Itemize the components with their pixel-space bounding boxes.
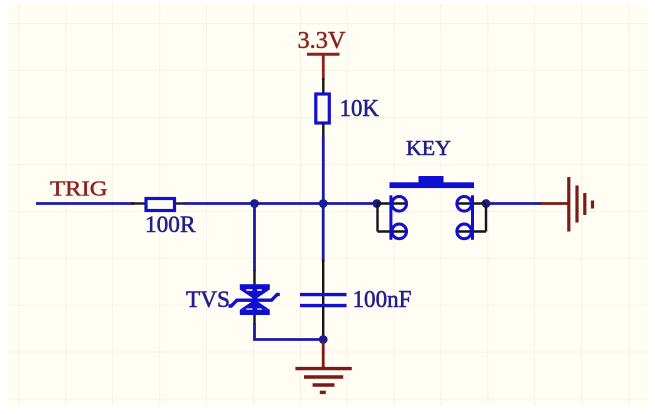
pin wire: R1 top pin bbox=[322, 78, 324, 95]
power wire 3.3V stem bbox=[322, 54, 325, 80]
svg-text:10K: 10K bbox=[340, 96, 380, 122]
TVS diode D1 top bar bbox=[240, 284, 270, 289]
button S1 left connector line bbox=[389, 195, 392, 240]
wire: R1 bottom to center junction bbox=[322, 136, 325, 204]
wire: ground stub (red) bbox=[322, 341, 325, 368]
ground symbol right bar4 bbox=[591, 201, 594, 209]
button S1 right connector line bbox=[471, 195, 474, 240]
TVS diode D1 top white gap dashes bbox=[246, 289, 261, 291]
push button S1 cap bar bbox=[390, 182, 475, 188]
wire: right ground stub (red) bbox=[540, 202, 568, 205]
wire: TRIG horizontal left segment bbox=[36, 202, 134, 205]
pin wire: C1 bottom pin bbox=[322, 306, 324, 337]
wire: TVS branch vertical bbox=[253, 204, 256, 272]
wire: button to right ground bbox=[486, 202, 542, 205]
power symbol 3.3V bar bbox=[307, 53, 340, 56]
button S1 top-right pin circle bbox=[457, 197, 472, 212]
button S1 top-left pin circle bbox=[392, 197, 407, 212]
node junction at center (10K / C1 branch) bbox=[319, 199, 328, 208]
button S1 bottom-right pin circle bbox=[457, 224, 472, 239]
pin wire: button pin1 (top-left) bbox=[377, 202, 408, 204]
pin wire: R2 left pin bbox=[131, 202, 147, 204]
pin wire: button pin2 (bottom-left) bbox=[378, 230, 408, 232]
svg-text:3.3V: 3.3V bbox=[298, 28, 347, 54]
ground symbol bottom bar2 bbox=[304, 375, 343, 378]
TVS diode D1 center column bbox=[252, 286, 257, 313]
pin wire: D1 bottom pin bbox=[253, 315, 255, 324]
resistor R2 body (100R) bbox=[146, 199, 175, 211]
wire: left pins tie vertical bbox=[376, 204, 378, 232]
svg-text:TVS: TVS bbox=[186, 287, 230, 313]
TVS diode D1 bottom bar bbox=[240, 310, 270, 315]
node junction at ground net bbox=[319, 335, 328, 344]
TVS diode D1 waist z-bar bbox=[229, 294, 280, 306]
pin wire: D1 top pin bbox=[253, 270, 255, 286]
ground symbol right bar2 bbox=[575, 186, 578, 223]
ground symbol right bar1 bbox=[567, 177, 570, 232]
capacitor C1 top plate bbox=[300, 293, 347, 296]
node junction right of button bbox=[482, 199, 491, 208]
pin wire: button pin4 (bottom-right) bbox=[456, 230, 486, 232]
capacitor C1 bottom plate bbox=[300, 304, 347, 307]
wire: main horizontal from R2 to button bbox=[184, 202, 377, 205]
ground symbol right bar3 bbox=[583, 193, 586, 215]
svg-text:100nF: 100nF bbox=[353, 287, 412, 313]
button S1 bottom-left pin circle bbox=[392, 224, 407, 239]
TVS diode D1 bottom triangle bbox=[240, 300, 270, 310]
node junction at TVS branch bbox=[250, 199, 259, 208]
ground symbol bottom bar4 bbox=[320, 391, 326, 394]
resistor R1 body (10K) bbox=[316, 94, 330, 123]
pin wire: R2 right pin bbox=[173, 202, 185, 204]
svg-text:KEY: KEY bbox=[406, 136, 451, 160]
pin wire: button pin3 (top-right) bbox=[456, 202, 486, 204]
ground symbol bottom bar3 bbox=[313, 383, 335, 386]
node junction left of button bbox=[372, 199, 381, 208]
wire: TVS bottom L to ground junction bbox=[255, 323, 324, 340]
svg-text:TRIG: TRIG bbox=[50, 177, 108, 201]
TVS diode D1 bottom white gap dashes bbox=[246, 308, 261, 310]
svg-text:100R: 100R bbox=[145, 212, 196, 238]
pin wire: R1 bottom pin bbox=[322, 123, 324, 137]
ground symbol bottom bar1 bbox=[295, 367, 351, 370]
wire: center junction down to C1 bbox=[322, 204, 325, 263]
pin wire: C1 top pin bbox=[322, 260, 324, 305]
TVS diode D1 top triangle bbox=[240, 290, 270, 300]
wire: right pins tie vertical bbox=[485, 204, 487, 232]
push button S1 cap bump bbox=[419, 176, 444, 183]
